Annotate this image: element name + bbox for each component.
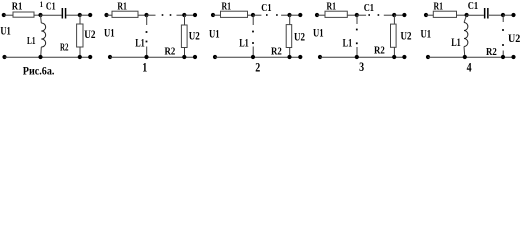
terminal node: bottom-right (variant 3) [402,55,406,59]
wire: junction to C1 (variant 4) [467,14,484,16]
junction node: L1 bottom (variant 1) [144,55,148,59]
terminal node: top-left input (scheme a) [2,13,6,17]
svg-text:U2: U2 [189,28,200,42]
svg-text:L1: L1 [135,35,145,49]
svg-text:L1: L1 [27,35,36,47]
svg-text:R2: R2 [486,47,497,58]
junction node: L1 bottom (variant 2) [251,55,255,59]
wire: node 1 down to L1 (scheme a) [40,15,43,23]
svg-text:R1: R1 [222,1,232,12]
terminal node: bottom-left (variant 1) [108,55,112,59]
junction node: R1 output (variant 1) [144,13,148,17]
wire: L1 to bottom rail (variant 4) [463,47,466,58]
junction node: R1 output (variant 2) [251,13,255,17]
terminal node: top-left input (variant 1) [104,13,108,17]
terminal node: top-right output (variant 4) [511,13,515,17]
terminal node: top-right output (scheme a) [88,13,92,17]
wire: C1 to R2 junction (scheme a) [66,14,80,16]
svg-text:U2: U2 [84,27,95,41]
wire: dotted segment right stub (variant 3) [384,14,394,16]
svg-text:R1: R1 [434,1,444,12]
wire: top junction to R2 (variant 2) [289,15,291,25]
terminal node: bottom-right (variant 2) [298,55,302,59]
wire: R1 to junction (variant 2) [248,14,254,16]
terminal node: top-left input (variant 4) [424,13,428,17]
wire: dotted segment left stub (variant 1) [147,14,156,16]
junction node: R2 top (scheme a) [78,13,82,17]
dotted-branch dot 1, L1 position (variant 1) [146,31,148,33]
capacitor C1 (variant 4) [484,8,489,19]
resistor R2 (variant 3) [391,24,397,47]
wire: top junction to R2 (variant 1) [184,15,186,25]
resistor R2 (variant 1) [181,25,187,48]
terminal node: bottom-right (scheme a) [88,55,92,59]
junction node: R2 top (variant 2) [287,13,291,17]
terminal node: bottom-left (scheme a) [2,55,6,59]
svg-text:1: 1 [40,0,43,9]
wire: bottom rail (variant 3) [320,56,404,58]
svg-text:2: 2 [255,60,260,75]
dotted-wire dot 1, series C1 position (variant 1) [162,14,164,16]
junction node: R1 output (variant 4) [465,13,469,17]
terminal node: top-right output (variant 2) [298,13,302,17]
dotted-branch dot 1, L1 position (variant 3) [356,29,358,31]
svg-text:R2: R2 [374,46,385,57]
dotted-branch dot 1, L1 position (variant 2) [252,31,254,33]
wire: R1 to junction (variant 3) [347,14,357,16]
svg-text:U1: U1 [0,23,10,37]
junction node: R2 bottom (scheme a) [78,55,82,59]
resistor R1 (variant 3) [325,11,347,17]
wire: R2 to bottom rail (scheme a) [79,47,81,57]
svg-text:U1: U1 [313,25,324,39]
wire: dotted segment right stub (variant 2) [281,14,289,16]
svg-text:L1: L1 [451,35,461,49]
junction node: R2 bottom (variant 1) [182,55,186,59]
svg-text:Рис.6а.: Рис.6а. [23,63,55,77]
wire: junction to output (variant 2) [290,14,301,16]
junction node: R2 top (variant 1) [182,13,186,17]
wire: dotted branch upper stub, L1 position (variant 3) [356,15,358,24]
svg-text:R1: R1 [327,1,337,12]
inductor L1 (variant 4) [464,23,468,47]
terminal node: bottom-left (variant 3) [318,55,322,59]
wire: dotted branch lower stub, L1 position (variant 2) [252,47,254,58]
wire: R2 to bottom rail (variant 3) [393,47,395,57]
svg-text:U1: U1 [209,27,220,41]
svg-text:C1: C1 [364,3,374,14]
wire: bottom rail (scheme a) [5,56,91,58]
svg-text:R2: R2 [60,42,69,53]
resistor R1 (variant 4) [433,11,456,17]
terminal node: bottom-right (variant 4) [511,55,515,59]
wire: junction to output (scheme a) [80,14,90,16]
inductor L1 (scheme a) [41,23,45,47]
wire: dotted branch upper stub, R2 position (variant 4) [502,15,504,22]
dotted-branch dot 2, L1 position (variant 1) [146,41,148,43]
dotted-wire dot 2, series C1 position (variant 2) [276,14,278,16]
wire: dotted segment left stub (variant 3) [357,14,366,16]
wire: top junction to R2 (variant 3) [393,15,395,24]
svg-text:L1: L1 [239,35,249,49]
junction node: R2 bottom (variant 2) [287,55,291,59]
junction node: R1 output (variant 3) [355,13,359,17]
wire: bottom rail (variant 4) [428,56,514,58]
svg-text:1: 1 [142,60,147,75]
junction node: R2 top (variant 4) [501,13,505,17]
dotted-wire dot 2, series C1 position (variant 3) [378,14,380,16]
svg-text:U2: U2 [401,29,412,43]
dotted-branch dot 2, L1 position (variant 2) [252,42,254,44]
terminal node: bottom-left (variant 4) [426,55,430,59]
terminal node: bottom-left (variant 2) [213,55,217,59]
junction node: L1 bottom (variant 3) [355,55,359,59]
svg-text:U2: U2 [294,30,305,44]
wire: input to R1 (variant 4) [426,14,433,16]
svg-text:L1: L1 [343,35,353,49]
wire: junction to output (variant 4) [503,14,514,16]
wire: dotted segment right stub (variant 1) [177,14,185,16]
junction node: L1 bottom (scheme a) [38,55,42,59]
wire: L1 to bottom rail (scheme a) [40,47,43,57]
wire: junction down to L1 (variant 4) [464,15,467,23]
resistor R2 (variant 2) [286,25,292,48]
svg-text:R2: R2 [271,47,282,58]
wire: dotted segment left stub (variant 2) [253,14,261,16]
wire: bottom rail (variant 1) [110,56,195,58]
svg-text:R2: R2 [165,46,176,57]
junction node: R2 bottom (variant 3) [392,55,396,59]
wire: R1 to junction (variant 1) [138,14,147,16]
wire: node 1 to C1 (scheme a) [41,14,62,16]
junction node: R2 bottom (variant 4) [501,55,505,59]
capacitor C1 (scheme a) [62,8,67,19]
wire: C1 to R2 junction (variant 4) [489,14,503,16]
wire: R1 to junction (variant 4) [457,14,467,16]
resistor R1 (variant 1) [112,11,138,17]
svg-text:R1: R1 [117,1,127,12]
wire: input to R1 (scheme a) [4,14,13,16]
resistor R1 (scheme a) [13,12,34,17]
wire: dotted branch lower stub, L1 position (variant 3) [356,47,358,57]
svg-text:U1: U1 [421,26,432,40]
wire: junction to output (variant 1) [184,14,195,16]
svg-text:U1: U1 [104,25,115,39]
svg-text:3: 3 [359,59,364,74]
terminal node: bottom-right (variant 1) [193,55,197,59]
resistor R1 (variant 2) [221,11,248,17]
terminal node: top-right output (variant 3) [402,13,406,17]
junction node: R2 top (variant 3) [392,13,396,17]
resistor R2 (scheme a) [77,24,83,47]
svg-text:C1: C1 [46,1,56,12]
wire: R2 to bottom rail (variant 1) [184,48,186,58]
wire: R1 to node 1 (scheme a) [34,14,41,16]
wire: dotted branch upper stub, L1 position (variant 2) [252,15,254,25]
wire: dotted branch lower stub, L1 position (variant 1) [146,47,148,58]
dotted-branch dot 1, R2 position (variant 4) [502,29,504,31]
svg-text:4: 4 [467,59,472,74]
wire: input to R1 (variant 3) [317,14,325,16]
dotted-branch dot 2, L1 position (variant 3) [356,42,358,44]
terminal node: top-right output (variant 1) [193,13,197,17]
svg-text:C1: C1 [261,3,271,14]
dotted-wire dot 2, series C1 position (variant 1) [170,14,172,16]
svg-text:U2: U2 [508,31,520,45]
terminal node: top-left input (variant 3) [315,13,319,17]
wire: dotted branch lower stub, R2 position (variant 4) [502,51,504,58]
wire: bottom rail (variant 2) [215,56,300,58]
node 1 junction (scheme a) [38,13,42,17]
wire: input to R1 (variant 2) [213,14,221,16]
dotted-wire dot 1, series C1 position (variant 2) [266,14,268,16]
junction node: L1 bottom (variant 4) [463,55,467,59]
wire: input to R1 (variant 1) [107,14,113,16]
dotted-branch dot 2, R2 position (variant 4) [502,44,504,46]
wire: R2 to bottom rail (variant 2) [289,48,291,58]
wire: top junction to R2 (scheme a) [79,15,81,24]
svg-text:C1: C1 [468,1,478,12]
svg-text:R1: R1 [12,1,23,12]
wire: junction to output (variant 3) [394,14,404,16]
wire: dotted branch upper stub, L1 position (variant 1) [146,15,148,25]
terminal node: top-left input (variant 2) [211,13,215,17]
dotted-wire dot 1, series C1 position (variant 3) [368,14,370,16]
